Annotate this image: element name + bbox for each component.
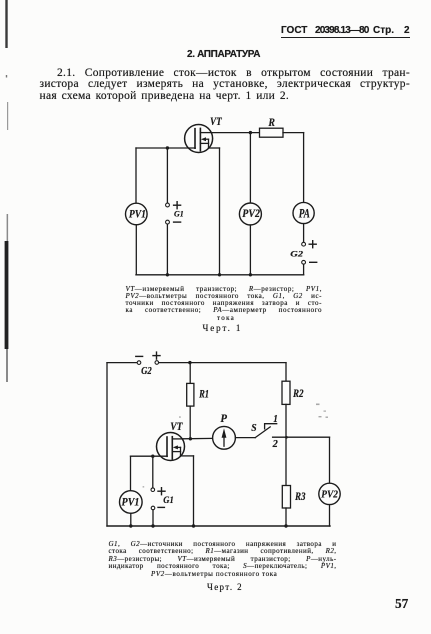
wire: bottom rail (circuit 1) [136,274,304,276]
header rule [281,37,411,39]
wire: R2 to R3 vertical (circuit 2) [285,404,287,485]
ammeter PA (circuit 1) [293,202,314,223]
battery G1 (circuit 1): - terminal [166,220,170,224]
wire: PV2 branch upper (circuit 2) [329,437,331,483]
wire: PV2 branch upper (circuit 1) [249,133,251,204]
node: PV2 at bottom rail (circuit 1) [249,273,252,276]
node: gate/G1 junction (circuit 2) [151,455,154,458]
node: R3 at bottom rail (circuit 2) [284,524,287,527]
wire: contact 2 line to PV2 (circuit 2) [273,436,330,438]
node: gate/G1 junction (circuit 1) [166,146,169,149]
wire: gate horizontal (circuit 2) [131,455,168,457]
transistor VT (circuit 1) [185,125,220,153]
wire: top rail right segment (circuit 2) [159,362,286,364]
Черт. 2 [207,582,243,592]
voltmeter PV1 (circuit 2) [120,491,143,514]
wire: PV1 branch lower (circuit 1) [135,225,137,275]
wire: PV1 branch upper (circuit 2) [130,456,132,491]
wire: G1 branch upper (circuit 2) [152,456,154,488]
wire: G1 branch upper (circuit 1) [166,148,168,203]
section heading [187,49,260,60]
node: R1 top junction (circuit 2) [188,361,191,364]
wire: PV1 branch lower (circuit 2) [130,513,132,526]
minus sign of G1 (circuit 1) [174,221,181,223]
caption 1 [126,286,323,322]
header: ГОСТ 20398.13-80 Стр. 2 [281,25,307,36]
switch S blade (circuit 2) [255,427,270,438]
voltmeter PV2 (circuit 1) [239,203,261,225]
wire: R1 upper lead (circuit 2) [189,363,191,384]
caption 2 [109,541,337,579]
resistor R2 (circuit 2) [282,381,290,404]
resistor R1 (circuit 2) [187,383,194,406]
battery G1 (circuit 2): + terminal [151,488,155,492]
wire: PV2 branch lower (circuit 2) [329,505,331,526]
wire: G1 branch lower (circuit 1) [166,224,168,275]
wire: G2 - terminal to bottom rail (circuit 1) [303,264,305,275]
transistor VT (circuit 2) [157,433,194,461]
wire: drain horizontal (circuit 1) [211,132,259,134]
page number 57 [395,597,408,613]
minus sign of G1 (circuit 2) [158,506,164,508]
wire: G1 branch lower (circuit 2) [152,510,154,526]
node: G1 at bottom rail (circuit 2) [151,524,154,527]
node: source at bottom rail (circuit 1) [218,273,221,276]
battery G2 (circuit 1): + terminal [302,242,306,246]
minus sign of G2 (circuit 2) [136,355,143,357]
wire: R to right corner (circuit 1) [283,132,304,134]
paragraph 2.1 [40,68,411,102]
plus sign of G2 (circuit 1) [309,241,316,248]
wire: P to switch pivot (circuit 2) [235,437,255,439]
wire: top rail left segment (circuit 2) [107,362,137,364]
wire: right vertical to PA (circuit 1) [303,133,305,203]
wire: drain horizontal to P (circuit 2) [182,437,213,439]
wire: source vertical (circuit 2) [193,456,195,526]
minus sign of G2 (circuit 1) [310,261,317,263]
battery G1 (circuit 2): - terminal [151,506,155,510]
wire: R1 lower lead (circuit 2) [189,406,191,439]
wire: PV2 branch lower (circuit 1) [249,225,251,275]
voltmeter PV1 (circuit 1) [126,203,148,225]
battery G2 (circuit 2): + terminal [155,361,159,365]
resistor R3 (circuit 2) [282,486,290,509]
resistor R (circuit 1) [260,128,284,137]
node: PV1 at bottom rail (circuit 2) [129,524,132,527]
wire: left rail (circuit 2) [106,363,108,526]
node: G1 at bottom rail (circuit 1) [166,273,169,276]
switch S contact 1 stub (circuit 2) [265,424,277,429]
Черт. 1 [203,323,243,333]
null indicator P (circuit 2) [213,426,236,449]
node: drain/R1/P junction (circuit 2) [189,437,192,440]
battery G2 (circuit 1): - terminal [302,260,306,264]
battery G1 (circuit 1): + terminal [166,203,170,207]
plus sign of G2 (circuit 2) [153,352,160,359]
wire: gate horizontal (circuit 1) [136,147,195,149]
plus sign of G1 (circuit 2) [158,488,165,495]
wire: R3 lower lead (circuit 2) [285,508,287,526]
plus sign of G1 (circuit 1) [174,202,181,209]
wire: right rail upper lead to R2 (circuit 2) [285,363,287,382]
battery G2 (circuit 2): - terminal [137,361,141,365]
wire: bottom rail (circuit 2) [107,525,330,527]
node: drain/PV2 junction (circuit 1) [249,131,252,134]
wire: source vertical (circuit 1) [219,148,221,275]
node: source at bottom rail (circuit 2) [192,524,195,527]
voltmeter PV2 (circuit 2) [319,483,340,504]
wire: PV1 branch upper (circuit 1) [135,148,137,203]
node: contact-2 line crossing right rail (circuit 2) [285,436,288,439]
wire: PA to G2 + terminal (circuit 1) [303,224,305,243]
